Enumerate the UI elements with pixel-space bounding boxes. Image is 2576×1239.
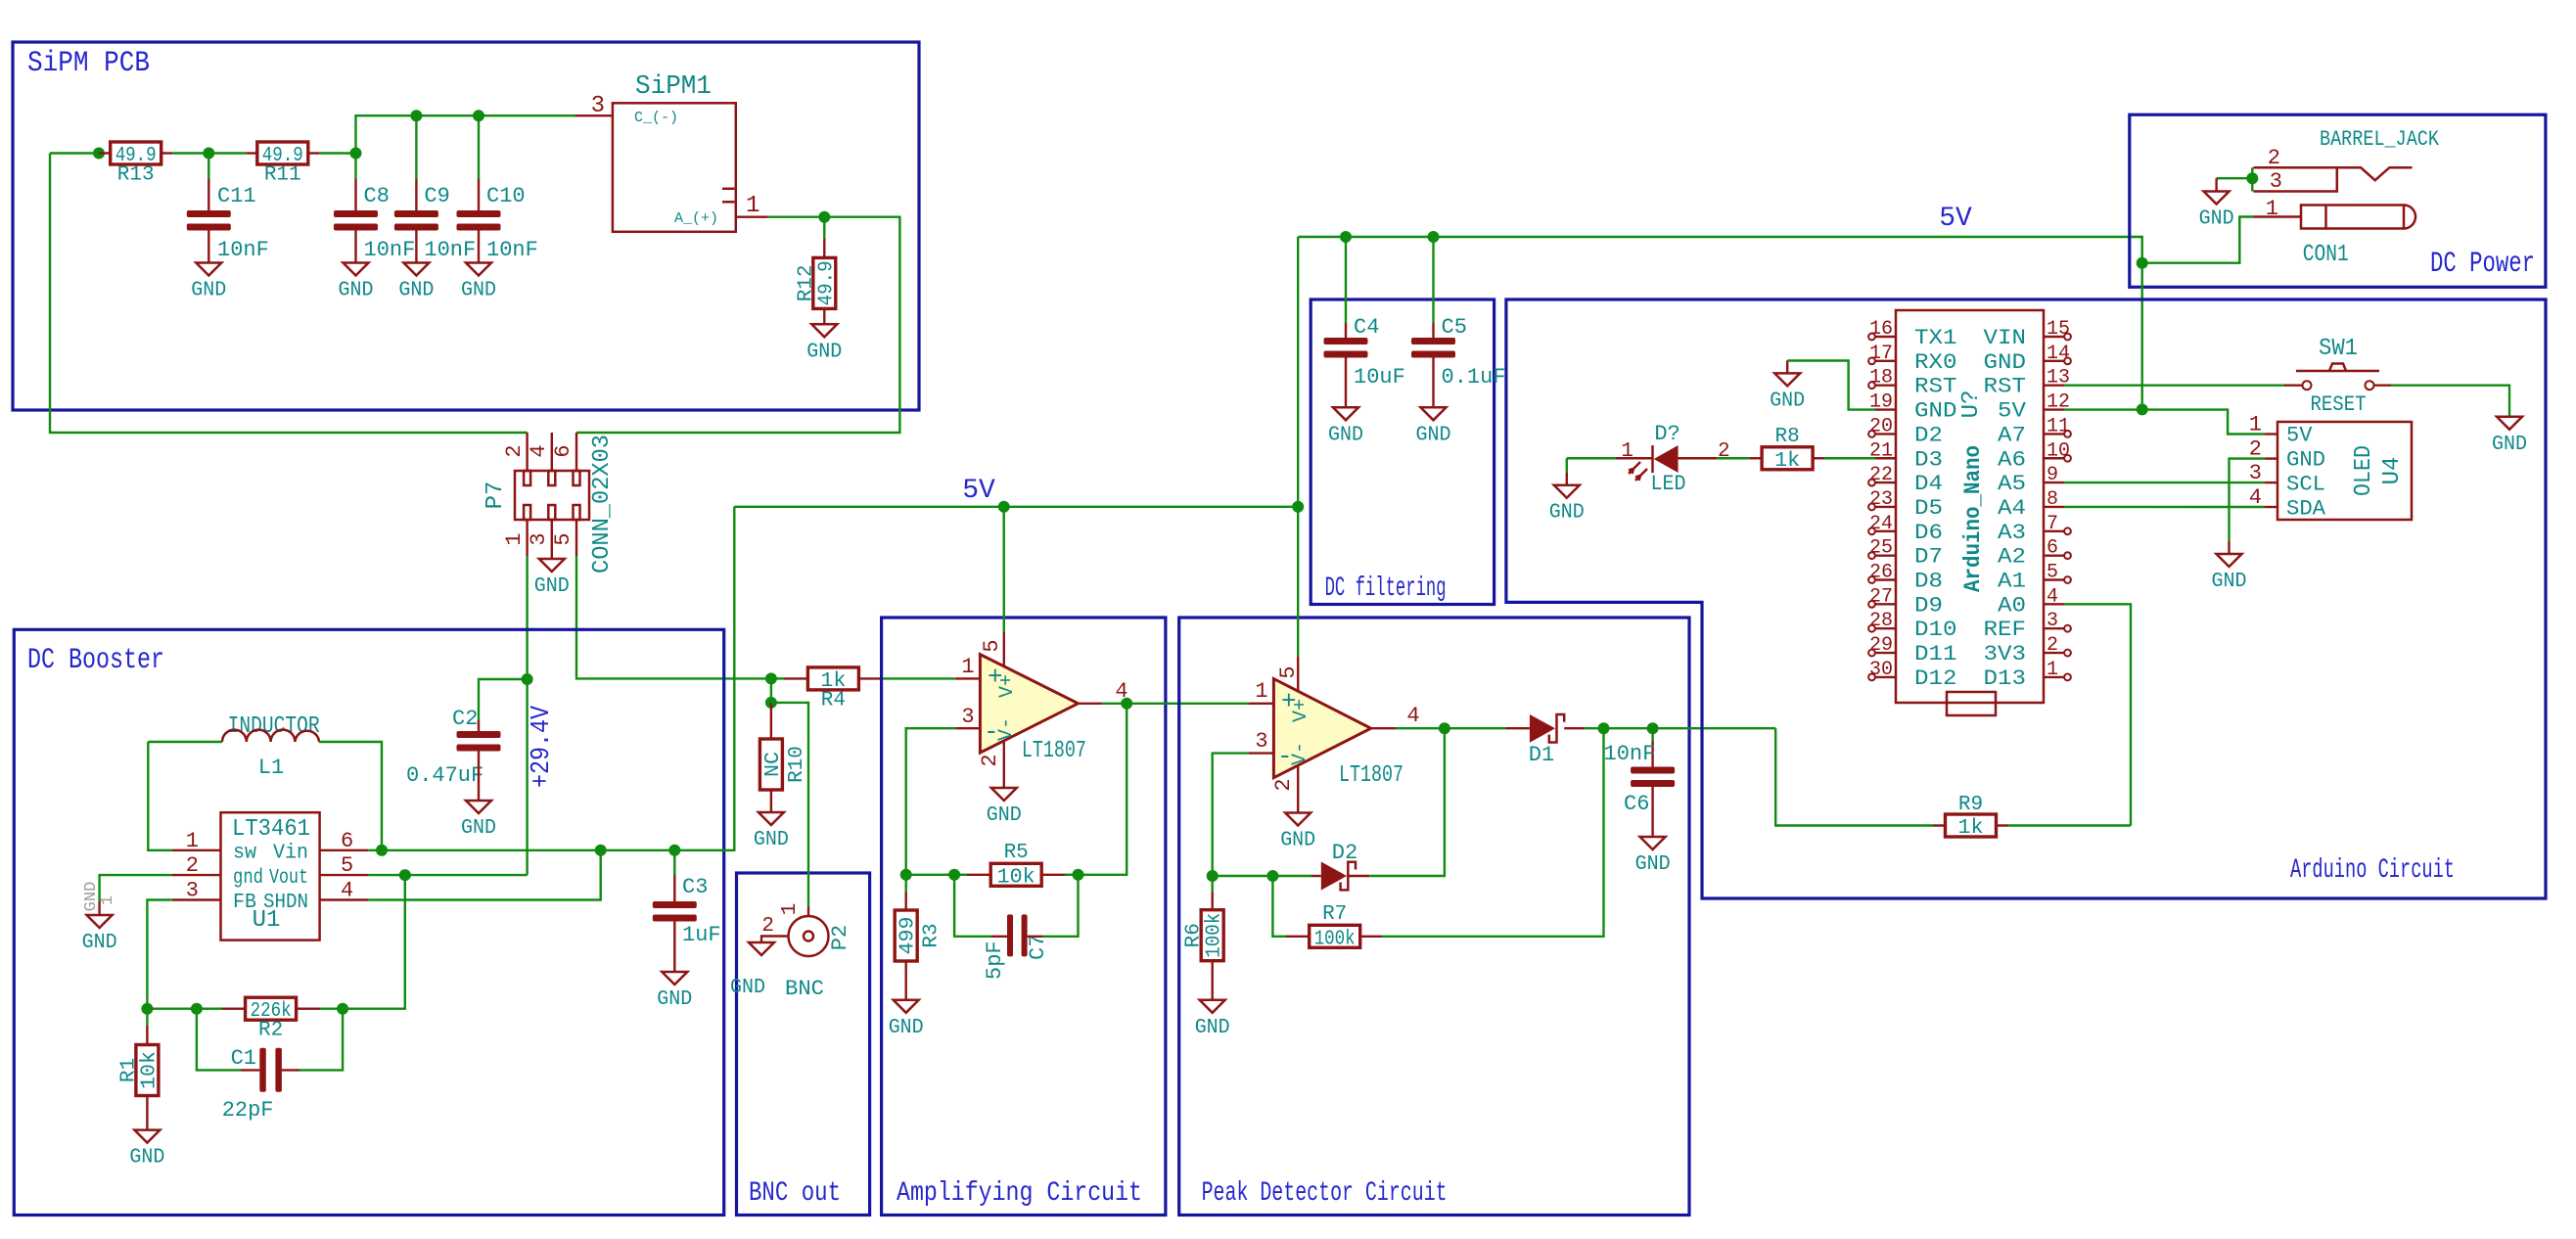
wire C3 top pin [673, 875, 675, 901]
wire R9 left pin [1933, 824, 1945, 826]
ground below LED [1549, 485, 1585, 525]
wire amp pin 5 stub [1003, 632, 1005, 666]
svg-text:R2: R2 [258, 1020, 283, 1042]
svg-text:GND: GND [398, 280, 434, 302]
svg-text:A1: A1 [1998, 570, 2026, 594]
wire Vin rail to C3 [601, 849, 675, 851]
wire peak amp pin 2 stub [1297, 765, 1299, 813]
svg-text:V-: V- [995, 717, 1018, 741]
svg-text:Amplifying Circuit: Amplifying Circuit [897, 1178, 1142, 1209]
wire R11 left pin [246, 152, 256, 154]
wire down to C10 [478, 115, 480, 179]
wire to D2 anode [1272, 875, 1311, 877]
wire inductor to Vin rail [319, 742, 382, 850]
node C11 tap junction [203, 148, 214, 160]
svg-text:LT1807: LT1807 [1022, 738, 1086, 764]
wire C10 top pin [478, 179, 480, 210]
svg-text:DC Power: DC Power [2430, 248, 2535, 281]
svg-text:2: 2 [761, 915, 774, 938]
wire U1 gnd pin to ground [100, 875, 172, 901]
wire R3 node to C7 node [906, 874, 954, 876]
svg-text:A3: A3 [1998, 521, 2026, 545]
wire inductor left to U1 pin1 [148, 742, 172, 850]
svg-text:GND: GND [1984, 350, 2027, 375]
ground below BNC pin 2 [730, 942, 774, 999]
connector P7 CONN_02X03 [483, 435, 616, 574]
wire D1 to R7 node [1584, 727, 1604, 729]
svg-text:A5: A5 [1998, 472, 2026, 496]
svg-text:GND: GND [1635, 853, 1671, 876]
svg-text:2: 2 [978, 754, 1002, 766]
svg-text:GND: GND [657, 988, 692, 1011]
node amp V+ junction [998, 501, 1010, 513]
svg-text:LT3461: LT3461 [232, 816, 310, 843]
node jack ground junction [2246, 172, 2258, 184]
svg-text:LT1807: LT1807 [1339, 762, 1403, 789]
wire U1 FB to divider [147, 900, 171, 1009]
svg-text:P2: P2 [828, 925, 852, 950]
svg-text:10nF: 10nF [364, 238, 416, 262]
svg-text:REF: REF [1984, 618, 2027, 642]
wire C7 left [954, 875, 991, 937]
svg-text:V+: V+ [1290, 699, 1312, 722]
wire C11 bottom pin [207, 230, 209, 262]
wire C5 bottom pin [1432, 358, 1434, 408]
svg-text:D10: D10 [1914, 618, 1957, 642]
svg-text:10nF: 10nF [1604, 742, 1656, 766]
ground below C4 [1328, 407, 1363, 446]
ground in DC Power [2199, 192, 2234, 231]
svg-text:P7: P7 [483, 482, 509, 510]
svg-text:C4: C4 [1354, 315, 1379, 340]
wire R5 right pin [1041, 874, 1065, 876]
node R10 BNC junction [765, 697, 777, 709]
svg-text:18: 18 [1869, 367, 1893, 390]
ground below C11 [191, 263, 226, 302]
resistor R13 [111, 142, 161, 187]
capacitor C10 [457, 184, 538, 262]
svg-text:2: 2 [2047, 634, 2058, 657]
svg-text:2: 2 [2268, 146, 2280, 170]
svg-text:1: 1 [2047, 659, 2058, 681]
wire D1 cathode pin [1564, 727, 1584, 729]
wire U1 pin 6 stub [320, 849, 369, 851]
wire down to C4 [1345, 237, 1347, 323]
svg-text:8: 8 [2047, 488, 2058, 511]
wire C4 bottom pin [1345, 358, 1347, 408]
svg-text:A4: A4 [1998, 496, 2026, 521]
wire C1 left pin [241, 1069, 259, 1071]
svg-text:RST: RST [1914, 375, 1957, 399]
wire D1 anode pin [1506, 727, 1530, 729]
wire 5V rail left [734, 506, 1003, 508]
wire C2 bottom pin [478, 752, 480, 802]
wire R1 top pin [146, 1026, 148, 1045]
svg-text:23: 23 [1869, 488, 1893, 511]
wire R13 left pin [99, 152, 111, 154]
svg-text:5V: 5V [962, 476, 995, 506]
svg-text:LED: LED [1651, 472, 1686, 496]
wire amp pin 2 stub [1003, 741, 1005, 788]
capacitor C8 [334, 184, 415, 262]
node 5V riser junction [1292, 501, 1304, 513]
wire OLED pin 1 stub [2265, 433, 2277, 435]
wire peak pin3 riser [1213, 754, 1249, 876]
wire C1 right up [299, 1009, 343, 1071]
svg-text:1: 1 [779, 903, 802, 916]
svg-text:GND: GND [730, 977, 765, 999]
Arduino Circuit block frame [1506, 299, 2546, 898]
svg-text:5V: 5V [1939, 204, 1972, 234]
wire OLED GND down [2230, 459, 2265, 541]
wire gnd pin drop [98, 901, 100, 915]
inductor L1 [222, 730, 319, 780]
wire P7 pin5 to R4 node [576, 556, 771, 678]
wire down to R1 [146, 1009, 148, 1026]
svg-text:C2: C2 [452, 707, 478, 731]
wire R6 node to D2 node [1213, 875, 1273, 877]
svg-text:5: 5 [1276, 665, 1301, 678]
wire P7 pin1 riser to Vout rail [526, 679, 528, 875]
svg-text:1k: 1k [1958, 817, 1984, 840]
svg-text:C10: C10 [486, 184, 526, 208]
svg-text:100k: 100k [1204, 913, 1226, 958]
svg-text:0.1uF: 0.1uF [1442, 365, 1506, 390]
wire down to C11 [207, 154, 209, 180]
svg-text:C11: C11 [217, 184, 256, 208]
wire U1 pin 5 stub [320, 874, 369, 876]
node C8 tap junction [350, 148, 362, 160]
ground below C8 [339, 263, 374, 302]
svg-text:A0: A0 [1998, 593, 2026, 618]
svg-text:1: 1 [2266, 197, 2278, 221]
wire down to C5 [1432, 237, 1434, 323]
node C1 branch junction [191, 1003, 203, 1015]
svg-text:sw: sw [233, 843, 256, 865]
wire P7 pin 4 stub [551, 433, 553, 471]
wire Vout to P7 riser [405, 874, 528, 876]
svg-text:R9: R9 [1958, 794, 1983, 816]
wire LED cathode pin [1616, 457, 1653, 459]
capacitor C9 [394, 184, 476, 262]
svg-text:11: 11 [2047, 415, 2070, 437]
svg-text:1: 1 [1621, 440, 1633, 463]
svg-text:V-: V- [1289, 742, 1311, 765]
wire C10 bottom pin [478, 230, 480, 262]
svg-text:GND: GND [82, 932, 117, 954]
wire C6 top pin [1651, 741, 1653, 767]
svg-text:A_(+): A_(+) [674, 210, 718, 227]
wire SW1 pin 2 stub [2374, 385, 2391, 387]
svg-text:4: 4 [527, 444, 551, 457]
svg-text:4: 4 [2047, 585, 2058, 608]
wire 5V to amp V+ [1002, 507, 1005, 632]
svg-text:5V: 5V [1998, 399, 2027, 424]
wire output feedback down [1079, 704, 1127, 875]
wire P7 pin 3 stub [551, 520, 553, 559]
wire 5V riser [1297, 237, 1299, 507]
SiPM sensor SiPM1 [613, 72, 736, 232]
svg-text:BNC: BNC [785, 977, 824, 1001]
wire R2 right pin [297, 1007, 320, 1009]
svg-text:GND: GND [1328, 424, 1363, 446]
svg-text:GND: GND [2212, 571, 2247, 593]
svg-text:4: 4 [341, 879, 353, 903]
ground above Arduino [1770, 373, 1805, 412]
wire U1 pin6 to rail [368, 849, 382, 851]
svg-text:22: 22 [1869, 464, 1893, 486]
svg-text:D7: D7 [1914, 545, 1943, 570]
node R12 tap junction [818, 211, 830, 223]
ground below R1 [129, 1130, 164, 1170]
svg-text:Peak Detector Circuit: Peak Detector Circuit [1202, 1178, 1448, 1209]
svg-text:14: 14 [2047, 343, 2070, 365]
svg-text:1: 1 [1255, 679, 1267, 704]
svg-text:SCL: SCL [2286, 473, 2325, 497]
wire peak amp pin 4 stub [1371, 727, 1396, 729]
node R2 C1 right junction [337, 1003, 348, 1015]
svg-text:GND: GND [806, 341, 842, 363]
svg-text:R5: R5 [1004, 842, 1029, 864]
svg-text:100k: 100k [1314, 928, 1356, 950]
wire amp pin 4 stub [1079, 703, 1103, 705]
svg-text:R10: R10 [786, 746, 808, 783]
wire R4 right pin [858, 677, 882, 679]
ground right of SW1 [2492, 417, 2527, 456]
wire OLED pin 3 stub [2265, 482, 2277, 483]
svg-text:10uF: 10uF [1354, 365, 1405, 390]
svg-text:SW1: SW1 [2319, 336, 2358, 362]
wire C6 bottom pin [1651, 787, 1653, 837]
svg-text:GND: GND [889, 1017, 924, 1039]
svg-text:Arduino Circuit: Arduino Circuit [2290, 855, 2455, 886]
svg-text:R7: R7 [1322, 903, 1347, 926]
svg-text:15: 15 [2047, 318, 2070, 341]
Peak Detector Circuit block frame [1179, 618, 1689, 1216]
capacitor C5 [1411, 315, 1506, 390]
wire R9 right pin [1997, 824, 2008, 826]
svg-text:GND: GND [1914, 399, 1957, 424]
wire amp output to peak detector [1127, 703, 1249, 705]
svg-text:GND: GND [129, 1147, 164, 1170]
svg-text:GND: GND [1770, 390, 1805, 412]
svg-text:R12: R12 [795, 264, 817, 301]
svg-text:1: 1 [961, 655, 974, 679]
ground below C10 [461, 263, 496, 302]
svg-text:SiPM PCB: SiPM PCB [27, 47, 150, 80]
wire P7 pin 6 stub [575, 433, 577, 471]
svg-text:D3: D3 [1914, 447, 1943, 472]
svg-text:RST: RST [1984, 375, 2027, 399]
wire U1 Vout [368, 874, 405, 876]
node C4 junction [1340, 231, 1352, 243]
wire 5V top rail mid [1346, 236, 1434, 238]
wire R10 top pin [770, 703, 772, 739]
SiPM PCB block frame [13, 42, 919, 410]
svg-text:GND: GND [461, 280, 496, 302]
wire C8 bottom pin [354, 230, 356, 262]
svg-text:GND: GND [2286, 448, 2325, 473]
svg-text:20: 20 [1869, 415, 1893, 437]
resistor R2 [246, 997, 297, 1041]
svg-text:1: 1 [2249, 413, 2262, 437]
svg-text:R6: R6 [1183, 923, 1206, 947]
svg-text:GND: GND [191, 280, 226, 302]
wire D2 cathode riser [1369, 728, 1445, 876]
DC Power block frame [2130, 115, 2546, 287]
node amp output junction [1121, 698, 1132, 710]
wire jack to ground [2217, 177, 2253, 179]
wire OLED gnd pin [2228, 541, 2230, 554]
wire Arduino gnd drop [1786, 361, 1788, 374]
wire R13 to C11 node [172, 152, 208, 154]
svg-text:2: 2 [502, 444, 527, 457]
svg-text:3: 3 [527, 532, 551, 545]
wire C8 top pin [354, 179, 356, 210]
svg-text:2: 2 [186, 853, 199, 878]
svg-text:C5: C5 [1442, 315, 1467, 340]
node SHDN branch junction [595, 845, 607, 856]
wire bias net to R13 [50, 152, 99, 154]
svg-text:6: 6 [2047, 537, 2058, 560]
wire R4 node to BNC pin 1 [771, 703, 808, 907]
wire SW1 pin 1 stub [2284, 385, 2302, 387]
ground below C3 [657, 972, 692, 1011]
wire R7 left pin [1286, 936, 1310, 938]
wire amp pin 3 stub [955, 727, 980, 729]
wire R3 bottom pin [905, 961, 907, 1000]
wire SW1 to ground [2391, 386, 2509, 417]
resistor R11 [257, 142, 308, 187]
svg-text:D4: D4 [1914, 472, 1943, 496]
wire down to C8 [354, 154, 356, 180]
svg-text:4: 4 [1406, 704, 1419, 728]
wire peak amp pin 1 stub [1249, 703, 1273, 705]
node R7 branch junction [1266, 870, 1278, 882]
switch SW1 RESET [2296, 336, 2379, 417]
svg-text:A7: A7 [1998, 423, 2026, 447]
node feedback junction [141, 1003, 153, 1015]
wire P7 pin 2 stub [526, 433, 528, 471]
wire down to R12 [823, 217, 825, 239]
wire U1 pin 3 stub [172, 898, 221, 900]
wire FB node to C1 node [147, 1007, 197, 1009]
ground below C9 [398, 263, 434, 302]
wire to R5 [954, 874, 967, 876]
wire SHDN to rail [368, 850, 600, 900]
svg-text:GND: GND [1195, 1017, 1230, 1039]
resistor R7 [1310, 925, 1360, 950]
wire down to R3 [905, 875, 907, 893]
wire C4 top pin [1345, 323, 1347, 338]
node 5V power junction [2137, 257, 2148, 269]
diode D2 schottky [1321, 841, 1357, 891]
resistor R5 [990, 863, 1041, 889]
svg-text:R1: R1 [117, 1058, 140, 1082]
svg-text:GND: GND [1549, 502, 1585, 525]
wire P7 pin1 down [526, 556, 528, 679]
LED D? [1621, 422, 1729, 496]
wire R7 right pin [1360, 936, 1382, 938]
node C5 junction [1428, 231, 1440, 243]
capacitor C4 [1324, 315, 1405, 390]
wire peak output to Arduino [1653, 727, 1776, 729]
capacitor C1 [222, 1046, 282, 1123]
wire C8 node up to SiPM pin3 rail [356, 115, 576, 153]
node junction left of R13 [93, 148, 105, 160]
svg-text:D2: D2 [1332, 841, 1357, 865]
wire SiPM anode to P7 pin 6 [576, 217, 899, 433]
svg-text:27: 27 [1869, 585, 1893, 608]
node R3 junction [900, 869, 912, 881]
svg-text:GND: GND [461, 817, 496, 840]
wire 5V top rail to DC power [1434, 237, 2142, 263]
svg-text:gnd: gnd [233, 867, 263, 890]
svg-text:D6: D6 [1914, 521, 1943, 545]
svg-text:30: 30 [1869, 659, 1893, 681]
svg-text:0.47uF: 0.47uF [406, 763, 483, 788]
wire R5 left pin [967, 874, 990, 876]
svg-text:R13: R13 [117, 164, 155, 187]
svg-text:5: 5 [551, 532, 575, 545]
ground below R10 [754, 812, 789, 851]
wire OLED pin 2 stub [2265, 457, 2277, 459]
svg-text:17: 17 [1869, 343, 1893, 365]
ground below R6 [1195, 1000, 1230, 1039]
svg-text:Vin: Vin [273, 843, 308, 865]
svg-text:6: 6 [551, 444, 575, 457]
svg-text:10k: 10k [997, 866, 1035, 889]
resistor R12 [795, 257, 838, 308]
wire R13 right pin [161, 152, 172, 154]
svg-text:26: 26 [1869, 562, 1893, 584]
wire 5V to OLED [2142, 410, 2265, 435]
svg-text:3: 3 [1255, 729, 1267, 754]
wire 5V rail right [1004, 506, 1299, 508]
svg-text:D2: D2 [1914, 423, 1943, 447]
svg-text:GND: GND [534, 575, 570, 598]
svg-text:D5: D5 [1914, 496, 1943, 521]
wire peak amp pin 5 stub [1297, 657, 1299, 691]
svg-text:D12: D12 [1914, 666, 1957, 691]
svg-text:1: 1 [502, 532, 527, 545]
svg-text:CONN_02X03: CONN_02X03 [589, 435, 616, 574]
wire C11 top pin [207, 179, 209, 210]
wire D3 to R8 [1824, 457, 1875, 459]
svg-text:499: 499 [897, 917, 920, 955]
svg-text:5V: 5V [2286, 424, 2313, 448]
wire down to C6 [1651, 728, 1653, 741]
op-amp LT1807 amplifier [980, 655, 1086, 764]
wire RST to SW1 [2064, 385, 2284, 387]
svg-text:3: 3 [2047, 610, 2058, 632]
svg-text:3: 3 [186, 879, 199, 903]
op-amp LT1807 peak detector [1273, 679, 1403, 789]
node C7 left junction [948, 869, 960, 881]
node R6 junction [1207, 870, 1219, 882]
svg-text:6: 6 [341, 829, 353, 853]
svg-text:10nF: 10nF [217, 238, 269, 262]
svg-text:L1: L1 [258, 756, 284, 780]
wire SiPM1 pin 1 stub [736, 215, 768, 217]
wire C7 left pin [991, 936, 1007, 938]
wire A5 to SCL [2064, 482, 2265, 483]
wire C1 right pin [282, 1069, 299, 1071]
wire P7 pin 5 stub [575, 520, 577, 556]
wire R12 top pin [823, 239, 825, 257]
ground below R3 [889, 1000, 924, 1039]
svg-text:9: 9 [2047, 464, 2058, 486]
